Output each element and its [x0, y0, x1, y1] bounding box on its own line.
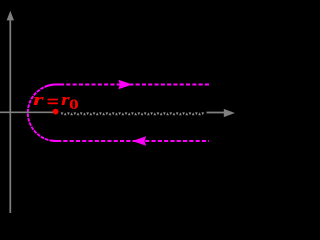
contour bottom line (dashed magenta)	[57, 140, 209, 142]
solid run at arc top junction	[45, 85, 61, 88]
horizontal axis left segment	[0, 111, 54, 113]
horizontal axis right segment	[207, 112, 227, 114]
contour semicircle arc around branch point (densely dashed magenta)	[28, 85, 57, 142]
solid run at arc bottom junction	[51, 139, 58, 142]
branch cut zigzag	[61, 112, 205, 115]
arrowhead on bottom contour line (points left)	[132, 136, 146, 146]
arrowhead on top contour line (points right)	[118, 80, 132, 90]
label r = r0	[33, 99, 44, 101]
vertical axis arrowhead	[7, 11, 14, 21]
contour top line (dashed magenta)	[57, 84, 209, 86]
branch point dot	[53, 109, 59, 115]
vertical axis	[9, 14, 11, 213]
horizontal axis arrowhead	[224, 109, 235, 117]
equals sign of label	[48, 99, 58, 101]
